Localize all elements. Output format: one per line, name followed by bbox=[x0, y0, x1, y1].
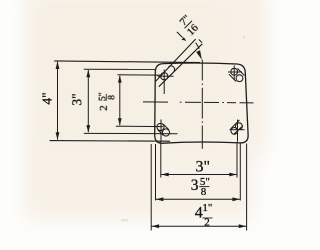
dimension 3in vertical bbox=[87, 70, 89, 132]
svg-text:4": 4" bbox=[40, 92, 55, 104]
hole top-right: slot end circle bbox=[236, 75, 243, 82]
plate outline (top plate, rounded corners) bbox=[155, 63, 248, 143]
svg-text:8: 8 bbox=[201, 186, 207, 198]
hole top-left crosshair bbox=[158, 75, 174, 77]
label 4-1/2 inch (bottom) bbox=[195, 202, 213, 228]
dimension 4in vertical bbox=[57, 62, 59, 140]
svg-text:1": 1" bbox=[202, 202, 212, 214]
label 2-5/8 inch (rotated, left) bbox=[98, 92, 117, 111]
label 7/16 inch (rotated leader label) bbox=[176, 13, 202, 39]
3-5/8 left bbox=[155, 144, 157, 201]
svg-text:2: 2 bbox=[204, 216, 210, 228]
hole bottom-left: slot end circle bbox=[162, 129, 169, 136]
7/16 lower arrow bbox=[196, 43, 200, 49]
svg-text:2: 2 bbox=[98, 105, 110, 111]
dimension 3in horizontal bbox=[161, 174, 237, 176]
dimension 4-1/2in horizontal bbox=[151, 225, 246, 227]
wire: 4in bottom extension line bbox=[50, 140, 170, 143]
hole bottom-left: main circle bbox=[157, 123, 164, 130]
wire: 2-5/8in top extension line bbox=[118, 74, 161, 76]
hole top-right crosshair bbox=[228, 71, 242, 73]
hole bottom-right crosshair bbox=[230, 129, 245, 131]
hole bottom-left slot tangents bbox=[163, 124, 169, 130]
bottom extension verticals: 4-1/2 left bbox=[150, 144, 152, 231]
label 3-5/8 inch (bottom) bbox=[191, 176, 210, 198]
label 3 inch (rotated, left) bbox=[69, 93, 84, 105]
hole bottom-right slot tangents bbox=[231, 120, 240, 129]
svg-text:3: 3 bbox=[191, 177, 199, 194]
hole bottom-left crosshair vertical bbox=[160, 120, 162, 143]
faint scan smudge bbox=[121, 219, 128, 222]
7/16 upper arrow bbox=[177, 32, 183, 38]
wire: 2-5/8in bottom extension line bbox=[116, 125, 163, 127]
hole bottom-right: slot end circle bbox=[231, 127, 238, 134]
slot tangent upper, extended for 7/16 dim bbox=[156, 39, 196, 81]
hole top-right slot tangents bbox=[238, 69, 245, 76]
wire: 3in top extension line bbox=[84, 68, 156, 70]
hole top-left: main circle bbox=[161, 73, 168, 80]
3-5/8 right bbox=[239, 143, 241, 201]
svg-text:3": 3" bbox=[196, 159, 211, 176]
faint scan dot bbox=[243, 36, 245, 38]
3 left bbox=[160, 142, 162, 178]
hole bottom-right: main circle bbox=[236, 123, 243, 130]
7/16 dim tick between slot lines bbox=[199, 40, 202, 43]
centerline vertical (dash-dot) bbox=[201, 60, 203, 149]
dimension 2-5/8in vertical bbox=[119, 76, 121, 126]
wire: 4in top extension line bbox=[54, 61, 200, 63]
label 4 inch (rotated, left) bbox=[40, 92, 55, 104]
svg-text:8: 8 bbox=[107, 95, 117, 100]
svg-text:3": 3" bbox=[69, 93, 84, 105]
4-1/2 right bbox=[246, 144, 248, 231]
slot tangent lower, extended for 7/16 dim bbox=[159, 44, 203, 87]
centerline horizontal (dash-dot) bbox=[143, 102, 254, 103]
wire: 3in bottom extension line bbox=[84, 132, 178, 134]
3 right bbox=[236, 142, 238, 178]
dimension 3-5/8in horizontal bbox=[156, 198, 240, 200]
hole top-right: main circle bbox=[231, 68, 238, 75]
hole top-left: slot end cap arc bbox=[168, 66, 174, 72]
